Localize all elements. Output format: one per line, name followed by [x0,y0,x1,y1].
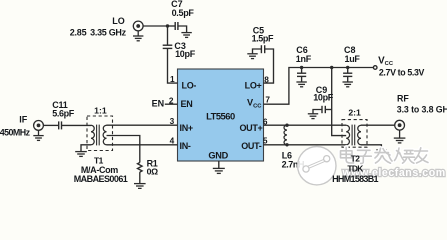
wire R1 to ground [139,172,141,183]
transformer T2 core [352,125,355,146]
IC ground stem [218,161,220,168]
svg-text:5.6pF: 5.6pF [52,109,74,119]
transformer T2 dashed box [342,120,367,148]
svg-text:IN+: IN+ [180,123,193,133]
ground at C8 [343,82,353,87]
svg-text:10pF: 10pF [313,93,334,103]
transformer T1 dashed box [87,116,113,151]
ground at C9 [308,114,318,119]
svg-text:2.85: 2.85 [70,27,87,37]
wire pin 6 to T2 primary top [264,124,347,126]
wire C3 to pin 1 [168,48,178,83]
wire C9 to ground [313,110,322,114]
svg-text:IN-: IN- [180,141,191,151]
svg-text:1.5pF: 1.5pF [252,34,274,44]
wire C8 to ground [347,76,349,81]
transformer T2 secondary winding [358,125,361,145]
ground at C5 [247,54,257,59]
capacitor C9 [322,106,325,113]
svg-text:4: 4 [170,136,175,146]
wire rail down to T2 center tap [332,68,347,136]
svg-text:1nF: 1nF [296,54,312,64]
svg-text:1uF: 1uF [345,54,361,64]
svg-text:GND: GND [208,151,228,161]
svg-text:5: 5 [263,135,268,145]
ground at R1 [134,184,146,189]
node L6 top junction [285,124,288,127]
ground at LO connector [133,31,143,41]
transformer T1 core [97,125,100,146]
transformer T2 primary winding [346,125,349,145]
wire C5 to ground [253,49,262,54]
svg-text:0.5pF: 0.5pF [172,8,195,18]
svg-text:0Ω: 0Ω [147,167,159,177]
VCC terminal circle [373,66,377,70]
wire T1 secondary top to pin 3 [107,124,178,126]
capacitor C11 [59,121,62,129]
wire pin 5 to T2 primary bottom [264,144,347,146]
svg-text:3.35 GHz: 3.35 GHz [90,27,126,37]
svg-text:2.7V to 5.3V: 2.7V to 5.3V [379,67,425,77]
wire T2 secondary bottom to ground [361,145,381,150]
svg-text:TDK: TDK [347,164,363,174]
transformer T1 primary winding [91,125,94,145]
watermark url text [342,167,446,179]
node rail C8 junction [346,66,349,69]
svg-text:HHM1583B1: HHM1583B1 [332,174,378,184]
wire C7 to ground [178,26,187,32]
inductor L6 [284,125,287,145]
watermark chinese characters [341,147,429,163]
svg-text:10pF: 10pF [175,49,196,59]
svg-text:IF: IF [19,115,28,125]
wire junction down to C3 [167,26,169,45]
svg-text:2:1: 2:1 [348,108,361,118]
wire EN stub pin2 [165,103,178,105]
capacitor C6 [297,73,306,76]
svg-text:7: 7 [265,95,270,105]
ground at RF connector [394,130,406,143]
svg-text:RF: RF [397,93,409,103]
wire T1 center tap to R1 [107,136,140,163]
wire rail to C8 [347,68,349,74]
connector J-LO [133,21,143,31]
wire LO connector to junction [143,25,167,27]
ground at C6 [296,82,306,87]
capacitor C3 [163,45,173,48]
wire T2 secondary top to RF connector [361,124,395,126]
wire C6 to ground [301,76,303,81]
transformer T1 secondary winding [103,125,106,145]
watermark logo circle [298,147,336,185]
wire junction to C7 [168,25,176,27]
wire pin 7 to VCC rail [264,68,374,105]
svg-text:T2: T2 [351,153,361,163]
node rail C6 junction [300,66,303,69]
wire T1 secondary bottom to pin 4 [107,144,178,146]
connector J-RF [395,120,405,130]
resistor R1 [138,163,143,173]
svg-text:MABAES0061: MABAES0061 [74,174,128,184]
svg-text:3.3 to 3.8 GHz: 3.3 to 3.8 GHz [397,104,447,114]
node LO junction [166,24,169,27]
wire rail to C6 [301,68,303,74]
ground at T1 [75,152,87,157]
ground at IF connector [33,130,43,140]
svg-text:1:1: 1:1 [94,105,107,115]
capacitor C8 [343,73,352,76]
svg-text:1: 1 [170,74,175,84]
ground at T2 secondary [376,150,386,155]
wire pin 8 to C5 [264,49,274,83]
svg-text:OUT-: OUT- [241,141,262,151]
svg-text:OUT+: OUT+ [239,123,262,133]
svg-text:450MHz: 450MHz [0,127,31,137]
wire C9 to riser [325,109,331,111]
svg-text:LT5560: LT5560 [206,110,235,121]
capacitor C7 [175,22,178,30]
svg-text:EN: EN [152,99,165,109]
wire T1 primary bottom to ground [81,145,91,152]
IC U1 LT5560 mixer body [178,69,264,161]
ground at C7 [181,33,191,38]
svg-text:LO-: LO- [182,81,197,91]
wire C11 to T1 [62,124,92,126]
svg-text:LO+: LO+ [245,81,262,91]
capacitor C5 [261,45,264,53]
node L6 bottom junction [285,143,288,146]
ground at IC GND [213,168,225,173]
svg-text:LO: LO [112,16,125,26]
wire IF connector to C11 [43,124,58,126]
node rail balun feed junction [330,66,333,69]
connector J-IF [34,121,44,131]
svg-text:EN: EN [181,99,193,109]
